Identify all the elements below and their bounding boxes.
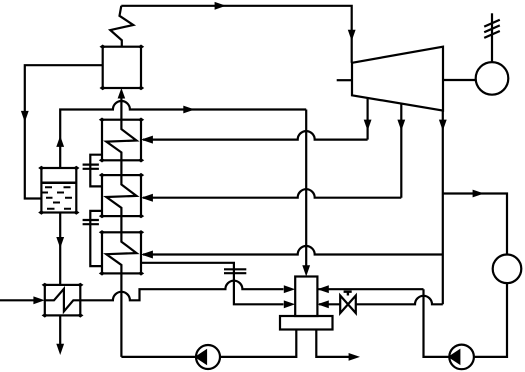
pump P1 <box>196 345 220 369</box>
cooler CL1 coil <box>45 289 81 312</box>
arrow blowdown right <box>349 353 360 361</box>
extraction E2 vertical <box>400 104 402 198</box>
extraction E1 vertical <box>367 98 369 140</box>
arrow recirculation down <box>21 111 29 122</box>
pump P1 impeller <box>197 351 207 363</box>
arrow tank drain down <box>56 237 64 248</box>
cooler CL1 <box>45 285 81 316</box>
condensate tank T1 <box>41 168 76 213</box>
corner diamonds boiler <box>38 45 144 318</box>
arrow turbine inlet down <box>348 30 356 41</box>
pump P2 <box>449 345 474 370</box>
drain H1 to H2 <box>90 155 102 187</box>
tank water texture dashes <box>42 187 73 209</box>
orifice O2 plates <box>83 220 99 224</box>
wire tank drain to cooler <box>59 213 61 285</box>
arrow tank riser up <box>56 136 64 147</box>
arrow deaerator feed line right <box>183 106 194 114</box>
generator G1 <box>476 62 509 95</box>
superheater coil squiggle <box>110 6 133 47</box>
grid connection riser <box>491 13 493 62</box>
deaerator right leg blowdown <box>316 330 349 357</box>
heater H3 <box>102 232 141 273</box>
extraction E3 line to heater H3 <box>143 246 443 255</box>
orifice O3 plates <box>224 269 246 273</box>
arrow into heater H3 <box>141 251 153 259</box>
branch to ejector condenser <box>443 194 507 255</box>
wire drain return to deaerator right upper <box>319 288 424 290</box>
wire P2 to deaerator <box>424 289 450 357</box>
wire main steam line top <box>121 6 351 63</box>
feedwater riser heater2-heater1 <box>120 160 122 175</box>
arrow branch right to C1 <box>473 190 484 198</box>
condensate line cooler to deaerator <box>80 281 283 301</box>
valve line into deaerator right lower <box>319 296 443 305</box>
corner diamonds heater H1 <box>99 118 144 163</box>
drain H2 to H3 <box>90 211 102 266</box>
valve V1 stem <box>344 292 352 296</box>
arrow into heater H1 <box>141 136 153 144</box>
arrow into deaerator right lower <box>317 300 328 308</box>
extraction E2 line to heater H2 <box>143 189 401 198</box>
deaerator base drum <box>280 316 333 330</box>
corner diamonds tank <box>38 166 79 215</box>
heater H2 coil <box>106 175 136 216</box>
arrow into heater H2 <box>141 194 153 202</box>
condensate inlet line <box>0 299 34 301</box>
arrow into cooler <box>33 296 44 304</box>
shaft left stub <box>337 79 352 81</box>
heater H1 coil <box>106 120 136 161</box>
arrow cooler drain down <box>56 344 64 355</box>
feedwater riser heater1-boiler <box>120 98 122 120</box>
corner diamonds cooler <box>42 283 84 318</box>
valve V1 body <box>340 296 356 314</box>
feedwater riser heater3-heater2 <box>120 216 122 232</box>
wire deaerator feed downcomer <box>305 110 307 268</box>
arrow boiler feed up <box>118 88 126 99</box>
wire C1 drain down <box>474 283 507 357</box>
deaerator column <box>295 277 317 317</box>
wire boiler left recirculation <box>25 65 103 198</box>
corner diamonds heater H3 <box>99 230 144 276</box>
shaft to generator <box>443 79 476 81</box>
extraction E3 vertical <box>442 111 444 305</box>
arrow extraction E3 down <box>439 120 447 131</box>
arrow into deaerator right upper <box>317 285 328 293</box>
arrow extraction E2 down <box>397 120 405 131</box>
orifice O1 plates <box>83 165 99 169</box>
heater H2 <box>102 175 141 216</box>
extraction E1 line to heater H1 <box>143 131 368 140</box>
ejector condenser C1 <box>493 254 522 283</box>
corner diamonds heater H2 <box>99 173 144 218</box>
arrow deaerator feed down <box>302 265 310 276</box>
arrow into deaerator left upper <box>284 285 295 293</box>
arrow main steam right <box>215 2 226 10</box>
heater H1 <box>102 120 141 161</box>
tank water level line <box>41 181 76 184</box>
deaerator left leg to pump1 <box>220 330 296 357</box>
grid symbol slashes <box>484 20 500 38</box>
drain H3 to deaerator <box>141 263 284 305</box>
wire P1 to feedwater riser <box>121 356 196 358</box>
boiler B1 <box>103 47 141 88</box>
arrow extraction E1 down <box>364 120 372 131</box>
pump P2 impeller <box>450 351 460 363</box>
turbine ST1 <box>352 47 443 111</box>
wire cooler drain outlet <box>59 315 61 344</box>
feedwater riser lower (pump1 to heater3) <box>120 273 122 357</box>
arrow into deaerator left lower <box>284 300 295 308</box>
heater H3 coil <box>106 232 136 273</box>
wire tank riser to deaerator feed <box>60 101 306 168</box>
